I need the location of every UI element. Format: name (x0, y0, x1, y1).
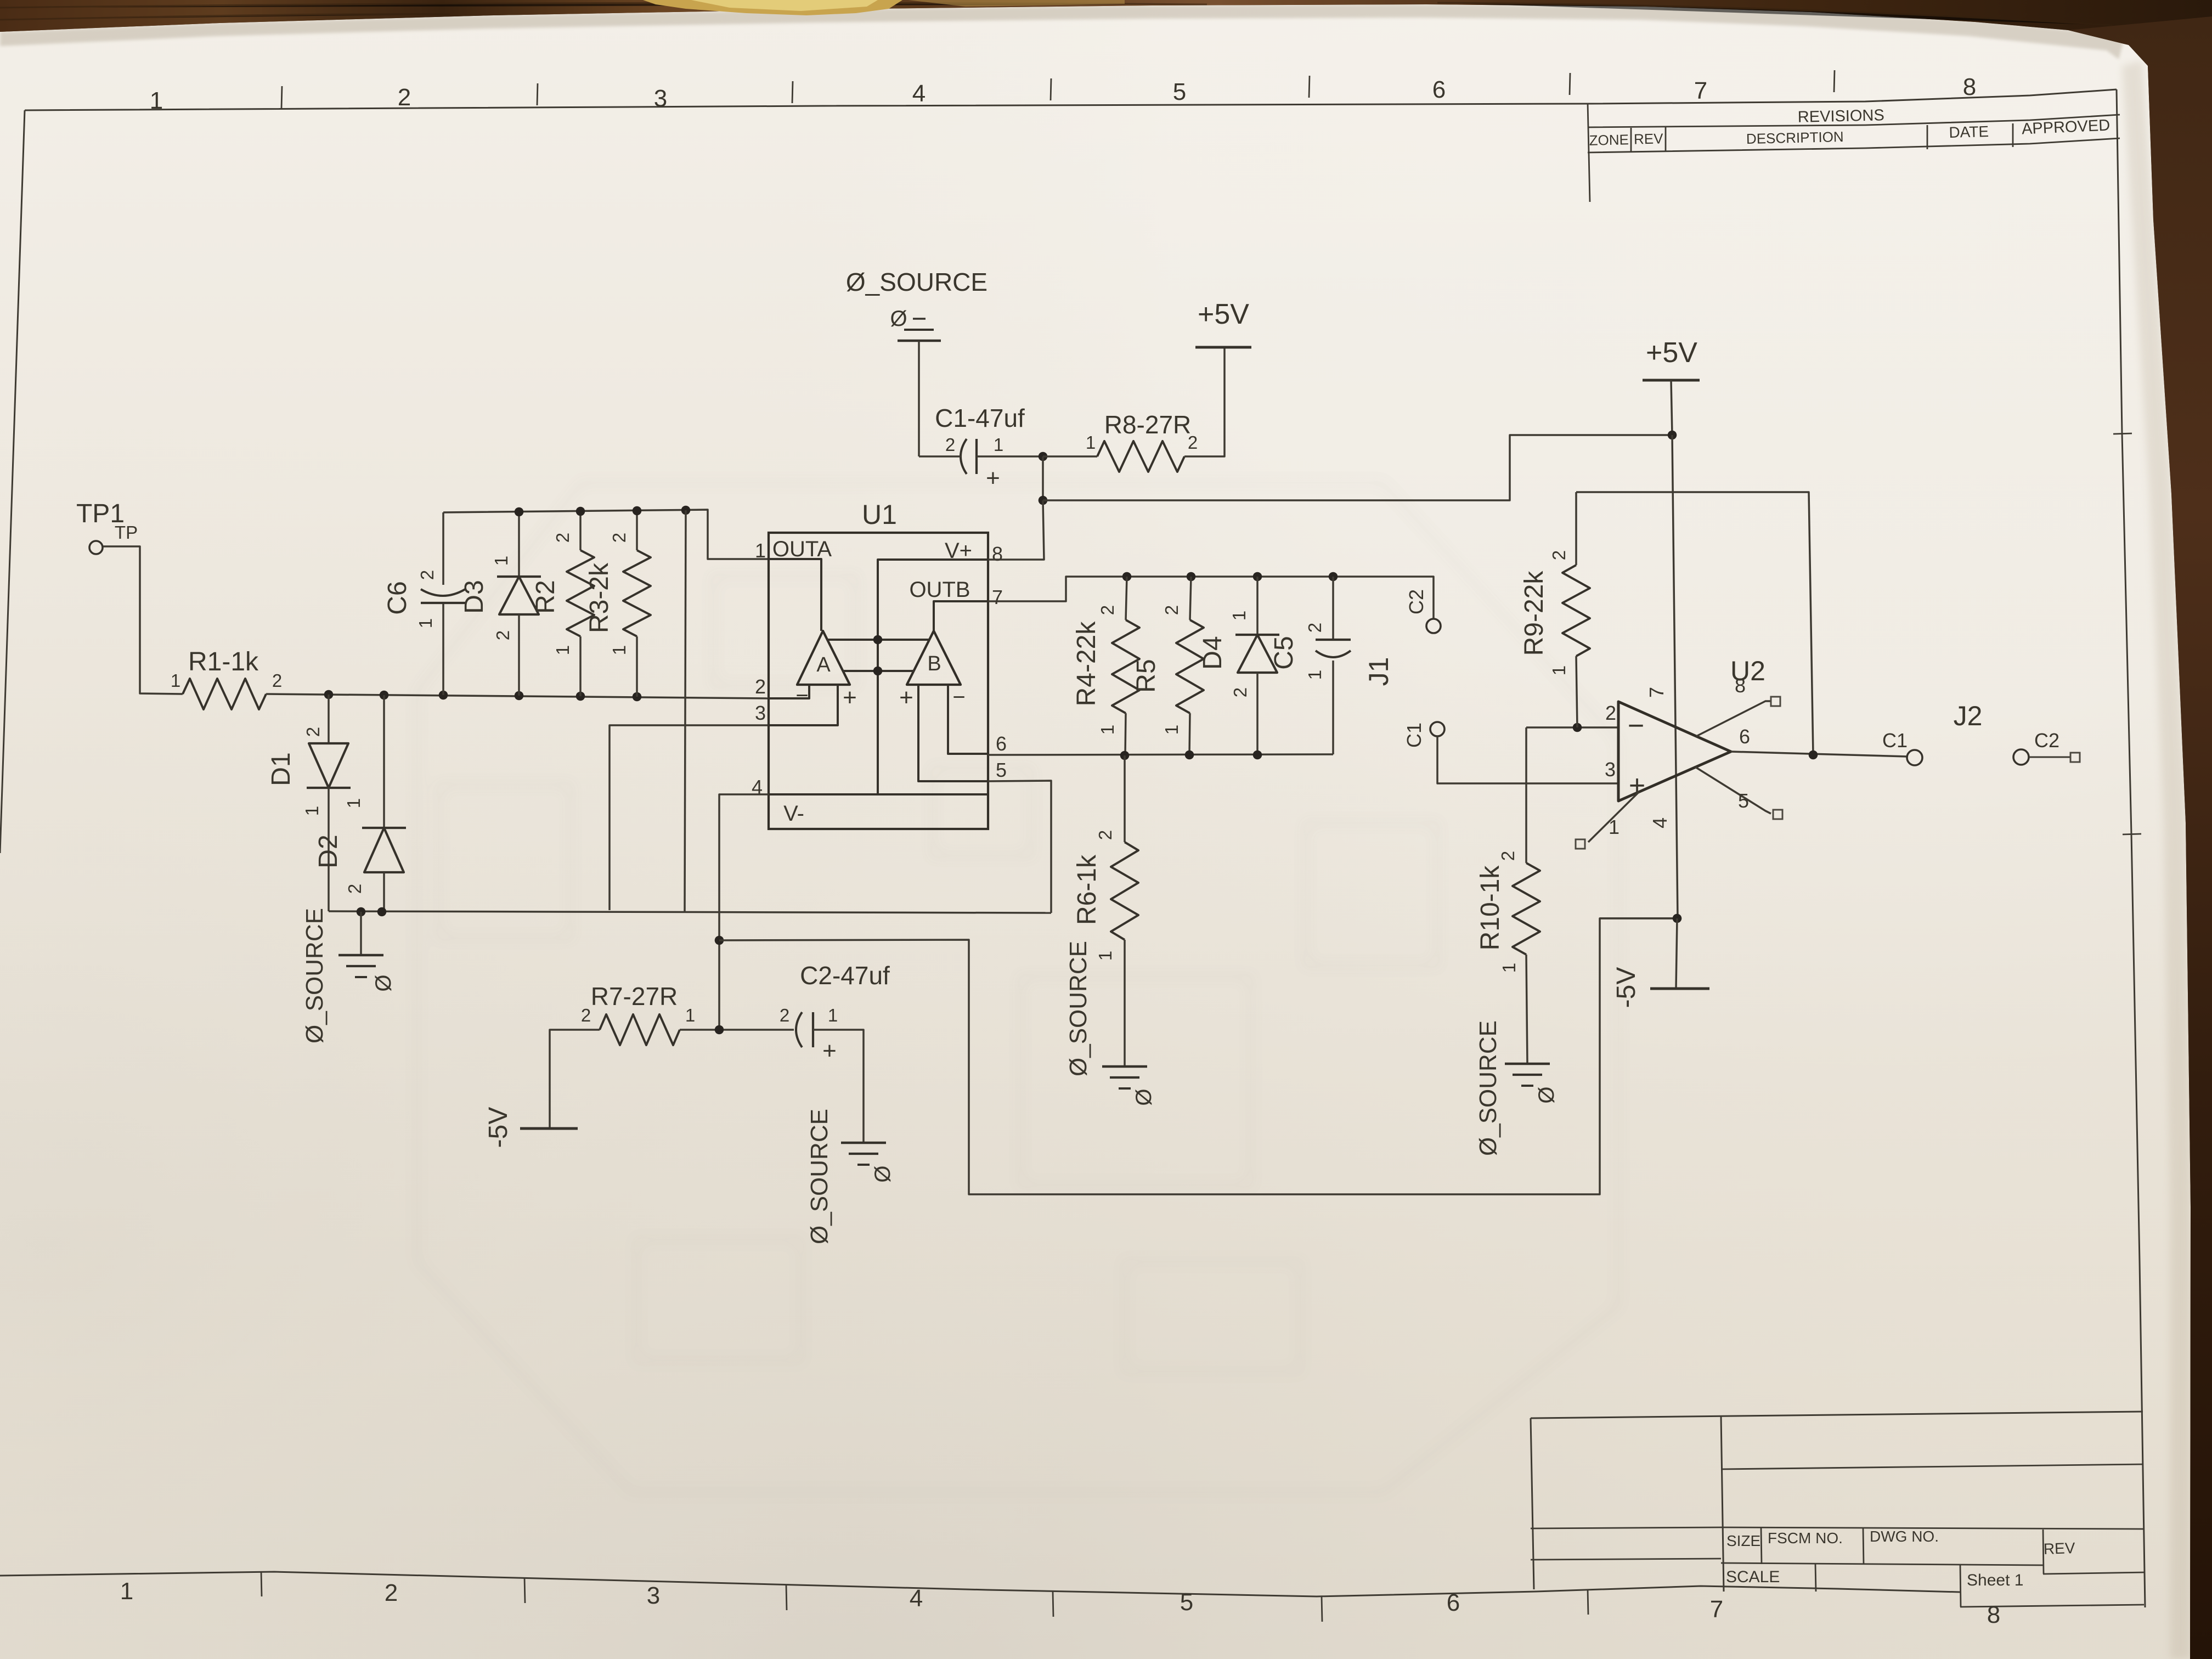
svg-text:1: 1 (1097, 725, 1118, 735)
svg-text:+: + (986, 465, 1000, 492)
capacitor C6 (442, 512, 444, 585)
svg-text:5: 5 (1173, 78, 1186, 105)
svg-text:Ø_SOURCE: Ø_SOURCE (301, 908, 328, 1043)
diode D1 (328, 695, 330, 743)
svg-text:DWG NO.: DWG NO. (1870, 1528, 1939, 1545)
svg-text:5: 5 (996, 759, 1007, 781)
wire main bus (266, 694, 769, 698)
svg-text:Sheet 1: Sheet 1 (1967, 1571, 2023, 1589)
op-amp U1A triangle (797, 631, 850, 685)
resistor R10 R10-1k (1525, 727, 1527, 863)
wire -5V net left (550, 1030, 600, 1128)
svg-text:1: 1 (994, 435, 1003, 455)
node OUTB bus junctions (1122, 572, 1132, 582)
border frame (25, 89, 2117, 110)
svg-text:1: 1 (171, 670, 180, 691)
svg-text:C1: C1 (1403, 723, 1425, 748)
node R7 C2 V- junction (715, 1025, 724, 1035)
svg-text:+5V: +5V (1646, 337, 1697, 369)
svg-text:C1: C1 (1882, 729, 1908, 752)
svg-text:FSCM NO.: FSCM NO. (1768, 1530, 1843, 1547)
svg-text:Ø: Ø (890, 307, 907, 331)
wire U2 pin 7 and pin 4 vertical (1672, 435, 1678, 918)
svg-text:R8-27R: R8-27R (1104, 410, 1192, 439)
wire U1 pin 3 net (610, 725, 769, 910)
wire U1 pin 5 net (988, 781, 1051, 913)
svg-text:ZONE: ZONE (1589, 131, 1629, 149)
svg-text:R7-27R: R7-27R (591, 982, 678, 1011)
op-amp U1 package (769, 533, 988, 829)
ground 0_SOURCE at D1 D2 (360, 912, 362, 955)
svg-text:C2: C2 (1405, 589, 1427, 614)
svg-text:7: 7 (1710, 1596, 1723, 1623)
svg-text:D1: D1 (267, 752, 296, 786)
svg-text:1: 1 (415, 618, 436, 628)
wire top bus to noninverting net (685, 510, 686, 912)
gold object on wood (643, 0, 902, 15)
wire C2 to ground (813, 1030, 864, 1143)
svg-text:2: 2 (1230, 687, 1250, 697)
svg-text:−: − (795, 684, 808, 708)
svg-text:2: 2 (1097, 605, 1118, 615)
wire D1 D2 common to U1 pins 3 and 5 (329, 911, 1051, 913)
svg-text:1: 1 (1305, 670, 1325, 680)
svg-text:1: 1 (1095, 951, 1115, 961)
diode D2 (383, 695, 385, 828)
svg-text:6: 6 (1447, 1589, 1460, 1616)
svg-text:2: 2 (303, 727, 323, 737)
svg-text:A: A (816, 653, 831, 676)
svg-text:1: 1 (1609, 816, 1620, 838)
resistor R3 R3-2k (636, 511, 638, 550)
svg-text:4: 4 (1649, 817, 1671, 828)
svg-text:8: 8 (1963, 74, 1976, 100)
node +5V rail split (1039, 496, 1048, 505)
power +5V right (1643, 379, 1700, 382)
node V- branch (715, 936, 724, 945)
svg-text:R3-2k: R3-2k (585, 562, 614, 633)
wire U1 pin 7 OUTB bus (988, 577, 1434, 618)
svg-text:R5: R5 (1132, 659, 1161, 692)
svg-text:Ø_SOURCE: Ø_SOURCE (846, 268, 988, 296)
pin 5 stub U2 (1695, 767, 1771, 814)
svg-text:5: 5 (1738, 789, 1749, 812)
svg-text:OUTB: OUTB (909, 578, 970, 602)
svg-text:3: 3 (1605, 758, 1616, 781)
svg-text:R6-1k: R6-1k (1073, 854, 1102, 925)
svg-text:V-: V- (783, 802, 804, 826)
pin 8 stub U2 (1696, 701, 1771, 736)
svg-text:2: 2 (1161, 605, 1182, 615)
svg-text:-5V: -5V (484, 1107, 513, 1148)
ground 0_SOURCE at R6 (1102, 1065, 1147, 1068)
svg-text:2: 2 (345, 884, 365, 894)
svg-text:Ø: Ø (1534, 1086, 1559, 1103)
svg-text:1: 1 (120, 1578, 133, 1605)
svg-text:+: + (1629, 770, 1645, 802)
svg-text:2: 2 (1605, 702, 1616, 724)
svg-text:2: 2 (755, 675, 766, 698)
svg-text:Ø_SOURCE: Ø_SOURCE (806, 1109, 833, 1244)
svg-text:6: 6 (996, 732, 1007, 755)
wire U2 pin 2 net (1526, 726, 1618, 729)
svg-text:7: 7 (1645, 687, 1668, 698)
wood top band redraw (0, 0, 2212, 65)
svg-text:Ø_SOURCE: Ø_SOURCE (1065, 941, 1092, 1076)
resistor R6 R6-1k (1124, 755, 1126, 842)
wire R7 to C2 (680, 1029, 794, 1031)
svg-text:1: 1 (609, 645, 629, 655)
wire top bus (443, 510, 769, 559)
svg-text:OUTA: OUTA (772, 537, 832, 561)
svg-text:2: 2 (945, 435, 955, 455)
svg-text:−: − (1628, 710, 1644, 742)
ground 0_SOURCE at C2 (841, 1142, 886, 1144)
node main bus junctions (324, 690, 334, 699)
svg-text:SCALE: SCALE (1726, 1568, 1780, 1586)
right side wood strip (2068, 16, 2212, 1659)
svg-text:4: 4 (912, 80, 926, 107)
node pin6 bus junctions (1120, 751, 1130, 760)
svg-text:J1: J1 (1363, 657, 1394, 686)
node +5V U2 junction (1668, 431, 1677, 440)
wire (103, 546, 183, 694)
svg-text:−: − (952, 685, 965, 709)
svg-text:1: 1 (552, 645, 573, 655)
svg-text:C2-47uf: C2-47uf (800, 961, 890, 990)
op-amp U2 (1618, 702, 1731, 801)
svg-text:Ø: Ø (871, 1165, 895, 1182)
svg-text:C1-47uf: C1-47uf (935, 404, 1025, 432)
svg-text:C2: C2 (2034, 729, 2059, 752)
resistor R2 (579, 511, 582, 550)
wire U1 internal (769, 559, 821, 631)
resistor R4 R4-22k (1126, 577, 1127, 620)
svg-text:REVISIONS: REVISIONS (1797, 106, 1884, 126)
svg-text:C5: C5 (1269, 636, 1299, 669)
svg-text:8: 8 (992, 543, 1003, 565)
svg-text:B: B (927, 652, 941, 675)
svg-text:1: 1 (1549, 665, 1569, 675)
svg-text:1: 1 (1229, 611, 1249, 620)
node junctions at ground stub and D2 (357, 907, 366, 917)
svg-text:REV: REV (2043, 1539, 2075, 1558)
wire U2 output (1731, 752, 1908, 757)
svg-text:8: 8 (1987, 1601, 2000, 1628)
ground 0_SOURCE at R10 (1505, 1063, 1550, 1065)
svg-text:2: 2 (385, 1579, 398, 1606)
svg-text:2: 2 (272, 670, 282, 691)
wire J1 C1 to U2 pin 3 (1437, 736, 1619, 783)
svg-text:Ø: Ø (371, 974, 396, 991)
capacitor C5 (1332, 577, 1334, 640)
svg-text:R10-1k: R10-1k (1476, 865, 1505, 951)
svg-text:1: 1 (302, 806, 322, 816)
resistor R9 R9-22k (1576, 656, 1577, 727)
svg-text:DESCRIPTION: DESCRIPTION (1746, 128, 1844, 147)
svg-text:2: 2 (398, 84, 411, 111)
soft shadow along right paper edge (2122, 60, 2191, 1659)
svg-text:2: 2 (1188, 432, 1198, 453)
node R9 bottom junction (1573, 723, 1582, 732)
svg-text:REV: REV (1634, 130, 1664, 147)
faint print-through ghost (417, 483, 1618, 1492)
svg-text:2: 2 (493, 630, 513, 640)
svg-text:R1-1k: R1-1k (188, 647, 259, 676)
diode D3 (518, 512, 520, 577)
svg-text:4: 4 (910, 1585, 923, 1612)
svg-text:+5V: +5V (1198, 298, 1249, 330)
svg-text:U1: U1 (862, 499, 897, 530)
wire +5V rail to right (1043, 435, 1672, 500)
node C1 R8 junction (1039, 452, 1048, 461)
svg-text:2: 2 (1549, 550, 1569, 560)
svg-text:1: 1 (150, 87, 163, 114)
wire +5V to U1 pin 8 (988, 500, 1044, 560)
svg-text:+: + (899, 684, 913, 711)
svg-text:1: 1 (828, 1005, 838, 1025)
shadow under top paper edge (0, 4, 2123, 59)
svg-text:2: 2 (552, 533, 573, 543)
svg-text:+: + (822, 1037, 837, 1064)
svg-text:D3: D3 (460, 580, 489, 613)
svg-text:R9-22k: R9-22k (1520, 571, 1549, 656)
svg-text:Ø_SOURCE: Ø_SOURCE (1475, 1020, 1502, 1156)
svg-text:3: 3 (654, 85, 667, 112)
wire +5V to U2 pin 7 (1671, 380, 1672, 435)
svg-text:1: 1 (685, 1005, 695, 1025)
svg-text:7: 7 (1694, 77, 1707, 104)
wire +5V rail (1042, 456, 1044, 500)
svg-text:R2: R2 (531, 580, 560, 613)
svg-text:C6: C6 (383, 581, 412, 614)
svg-text:3: 3 (647, 1582, 660, 1609)
wire R8 to +5V (1184, 348, 1224, 456)
svg-text:5: 5 (1180, 1589, 1193, 1616)
svg-text:+: + (843, 684, 857, 711)
svg-text:D4: D4 (1198, 636, 1227, 669)
op-amp U1B triangle (907, 631, 961, 685)
svg-text:6: 6 (1432, 76, 1446, 103)
wire V- branch to U2 side (719, 918, 1677, 1194)
power -5V right (1676, 918, 1677, 989)
power +5V center (1195, 346, 1251, 349)
svg-text:1: 1 (1086, 432, 1096, 453)
title block (1531, 1412, 2143, 1418)
svg-text:8: 8 (1735, 674, 1746, 697)
svg-text:2: 2 (1095, 830, 1115, 840)
svg-text:-5V: -5V (1612, 967, 1641, 1008)
node U2 output junction (1809, 751, 1818, 760)
node U2 pin4 -5V junction (1673, 914, 1682, 923)
wire -5V to U2 pin 4 (1600, 917, 1677, 919)
svg-text:1: 1 (755, 539, 766, 562)
pin 1 stub U2 (1588, 792, 1639, 842)
wire R9 feedback to U2 output (1576, 492, 1813, 755)
diode D4 (1256, 577, 1259, 635)
connector J2 pad C2 (2013, 749, 2029, 765)
wire U1 pin 6 bus (988, 754, 1333, 755)
svg-text:2: 2 (1305, 623, 1325, 633)
svg-text:2: 2 (780, 1005, 789, 1025)
svg-text:TP: TP (115, 522, 138, 543)
node top bus junctions (515, 507, 524, 517)
svg-text:SIZE: SIZE (1726, 1532, 1760, 1549)
svg-text:R4-22k: R4-22k (1072, 621, 1101, 707)
svg-text:1: 1 (1161, 725, 1182, 735)
wire U1 pin 4 V- net (719, 794, 769, 1030)
svg-text:7: 7 (992, 586, 1003, 608)
svg-text:1: 1 (491, 556, 511, 566)
resistor R5 (1190, 577, 1191, 620)
svg-text:1: 1 (343, 798, 364, 808)
svg-text:DATE: DATE (1949, 123, 1989, 141)
svg-text:2: 2 (1498, 851, 1518, 861)
svg-text:2: 2 (581, 1005, 591, 1025)
svg-text:1: 1 (1499, 963, 1519, 973)
revisions table (1588, 103, 1590, 202)
svg-text:3: 3 (755, 702, 766, 724)
wire J2 C2 stub (2029, 757, 2070, 758)
svg-text:Ø: Ø (1132, 1088, 1156, 1105)
svg-text:2: 2 (609, 533, 629, 543)
svg-text:J2: J2 (1954, 701, 1983, 731)
power -5V left (520, 1127, 578, 1130)
svg-text:D2: D2 (314, 834, 343, 868)
svg-text:6: 6 (1739, 725, 1750, 748)
svg-text:2: 2 (417, 570, 437, 580)
